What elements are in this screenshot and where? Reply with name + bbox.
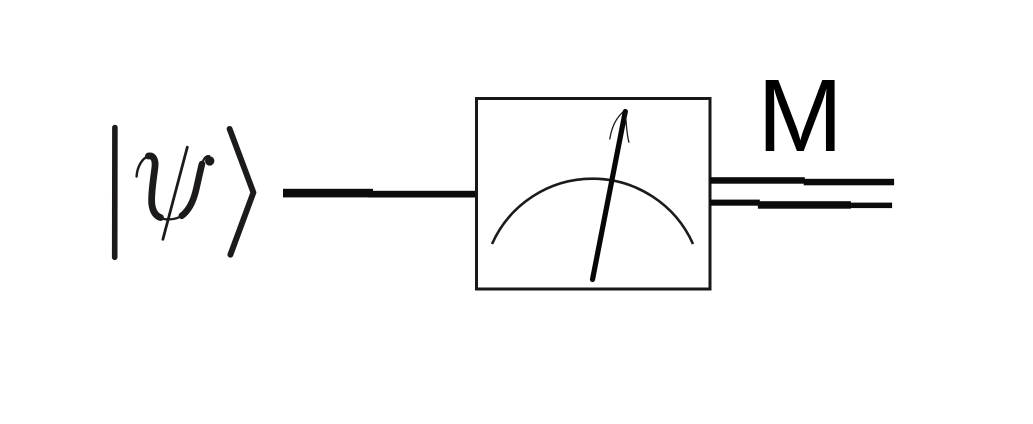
psi glyph: bowl bottom hairline <box>158 215 183 219</box>
meter M1: needle <box>593 112 626 280</box>
wire: classical double wire, lower line left segment <box>710 200 760 206</box>
wire: classical double wire, lower line right segment <box>849 203 892 209</box>
wire: classical double wire, upper line right segment <box>804 179 894 186</box>
psi glyph: entry hook <box>137 156 149 177</box>
meter M1: dial arc <box>492 179 693 244</box>
meter M1: needle arrowhead left barb <box>610 112 623 139</box>
ket left bar | <box>112 128 118 258</box>
ket right angle bracket <box>230 129 254 255</box>
svg-text:M: M <box>757 58 843 173</box>
wire: quantum input wire (right segment) <box>368 191 479 198</box>
wire: classical double wire, upper line left segment <box>710 177 805 184</box>
wire: classical double wire, lower line middle segment <box>758 201 851 209</box>
node psi-in: ket |psi> input state label <box>115 128 254 258</box>
psi glyph: left arm (thick) <box>149 156 161 218</box>
psi glyph: ball terminal <box>205 156 214 165</box>
psi glyph: right arm (thick) <box>182 164 202 216</box>
wire: quantum input wire (left segment) <box>283 189 373 198</box>
meter M1: measurement box <box>477 99 711 290</box>
meter M1: needle arrowhead right barb <box>625 113 629 143</box>
psi glyph: terminal hairline to ball <box>202 156 209 164</box>
psi glyph: slanted stem <box>163 147 187 239</box>
